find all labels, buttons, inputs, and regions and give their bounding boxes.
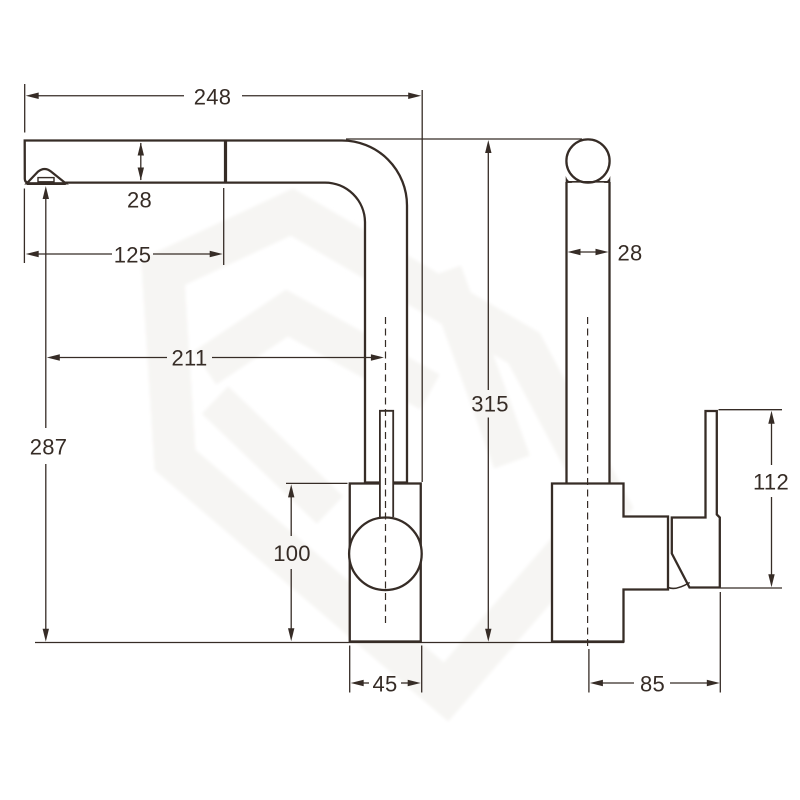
svg-text:28: 28 [127, 188, 152, 213]
svg-text:287: 287 [30, 434, 68, 459]
svg-text:85: 85 [640, 672, 665, 697]
svg-text:100: 100 [273, 541, 311, 566]
svg-text:112: 112 [753, 469, 789, 494]
svg-text:125: 125 [114, 243, 152, 268]
svg-text:45: 45 [372, 672, 397, 697]
svg-text:315: 315 [471, 391, 509, 416]
svg-text:28: 28 [617, 240, 642, 265]
svg-text:211: 211 [172, 346, 208, 371]
svg-text:248: 248 [194, 84, 232, 109]
